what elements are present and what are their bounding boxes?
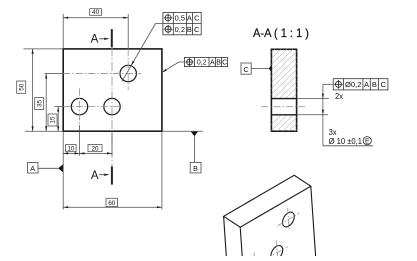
svg-text:A: A <box>187 14 192 23</box>
FCF1 leader to top hole <box>122 24 163 82</box>
svg-text:10: 10 <box>67 145 75 152</box>
centerline vertical top hole <box>127 49 129 90</box>
iso hole lower (ellipse, partially cut) <box>266 241 288 261</box>
svg-text:60: 60 <box>108 200 116 207</box>
dimension 35 <box>35 74 48 132</box>
datum B <box>162 131 203 173</box>
section view title A-A ( 1 : 1 ) <box>253 26 309 40</box>
dimension 40 <box>63 9 128 49</box>
section hatching bottom <box>262 84 312 182</box>
svg-text:C: C <box>194 14 200 23</box>
hole edge extension lines (section, right) <box>297 99 329 115</box>
svg-text:C: C <box>243 65 248 74</box>
extension lines below part (for dims 10 20 60) <box>63 125 162 210</box>
iso hole upper (ellipse) <box>278 208 300 231</box>
centerline vertical left hole <box>79 88 81 125</box>
svg-text:C: C <box>194 25 200 34</box>
svg-text:C: C <box>222 60 227 67</box>
svg-text:Ø0,2: Ø0,2 <box>345 80 361 89</box>
svg-text:C: C <box>380 80 386 89</box>
svg-text:E: E <box>365 139 370 146</box>
hole middle-left (front view) <box>71 98 87 114</box>
svg-text:A: A <box>91 33 99 46</box>
leader vertical with arrows (to FCF3 and note) <box>322 84 373 146</box>
note 2x <box>335 91 344 101</box>
note 3x Ø 10 ±0,1 E <box>329 127 372 146</box>
dimension 15 <box>48 107 59 132</box>
top face <box>224 175 311 227</box>
svg-text:B: B <box>193 164 198 173</box>
datum C <box>241 63 272 74</box>
centerline horizontal through middle holes <box>55 106 123 108</box>
svg-text:0,2: 0,2 <box>197 60 207 67</box>
section hole centerline <box>261 106 305 108</box>
svg-text:15: 15 <box>50 116 57 124</box>
right edge of front face <box>311 186 316 256</box>
svg-text:B: B <box>216 60 221 67</box>
section arrow bottom (A) <box>91 166 112 184</box>
feature control frame FCF1 (position 0,5 A C / 0,2 B C) <box>163 12 201 34</box>
section hole edges <box>271 99 296 115</box>
dimension 60 <box>63 198 162 208</box>
svg-text:20: 20 <box>91 145 99 152</box>
svg-text:35: 35 <box>36 100 43 108</box>
svg-text:B: B <box>372 80 377 89</box>
section view outline <box>271 49 296 131</box>
datum A <box>28 163 63 174</box>
section arrow top (A) <box>91 29 112 47</box>
svg-text:Ø 10 ±0,1: Ø 10 ±0,1 <box>329 136 363 146</box>
svg-text:B: B <box>187 25 192 34</box>
svg-text:0,2: 0,2 <box>175 25 185 34</box>
FCF2 leader to right edge <box>162 62 185 72</box>
front view part outline <box>63 49 162 131</box>
section cut line A-A (vertical dash-dot) <box>111 48 113 167</box>
isometric view plate <box>224 175 316 256</box>
svg-text:A: A <box>210 60 215 67</box>
svg-text:A: A <box>30 164 35 173</box>
svg-text:A: A <box>91 170 99 182</box>
hole top-right (front view) <box>120 65 136 81</box>
iso hole left (cut off, centerline tick) <box>253 253 255 257</box>
svg-text:40: 40 <box>92 9 100 16</box>
svg-text:0,5: 0,5 <box>175 14 185 23</box>
dimension 20 <box>80 145 113 155</box>
dimension 50 <box>17 49 64 131</box>
hole middle-right (front view) <box>104 98 120 114</box>
feature control frame FCF2 (position 0,2 A B C) <box>184 57 227 66</box>
svg-text:50: 50 <box>18 83 25 91</box>
dimension 10 <box>63 145 79 155</box>
svg-text:2x: 2x <box>335 91 344 101</box>
feature control frame FCF3 (position Ø0,2 A B C) <box>333 79 388 90</box>
centerline horizontal through top hole <box>45 73 141 75</box>
svg-text:A-A ( 1 : 1 ): A-A ( 1 : 1 ) <box>253 26 309 40</box>
section hatching top <box>262 6 312 146</box>
left face edges <box>224 216 227 256</box>
